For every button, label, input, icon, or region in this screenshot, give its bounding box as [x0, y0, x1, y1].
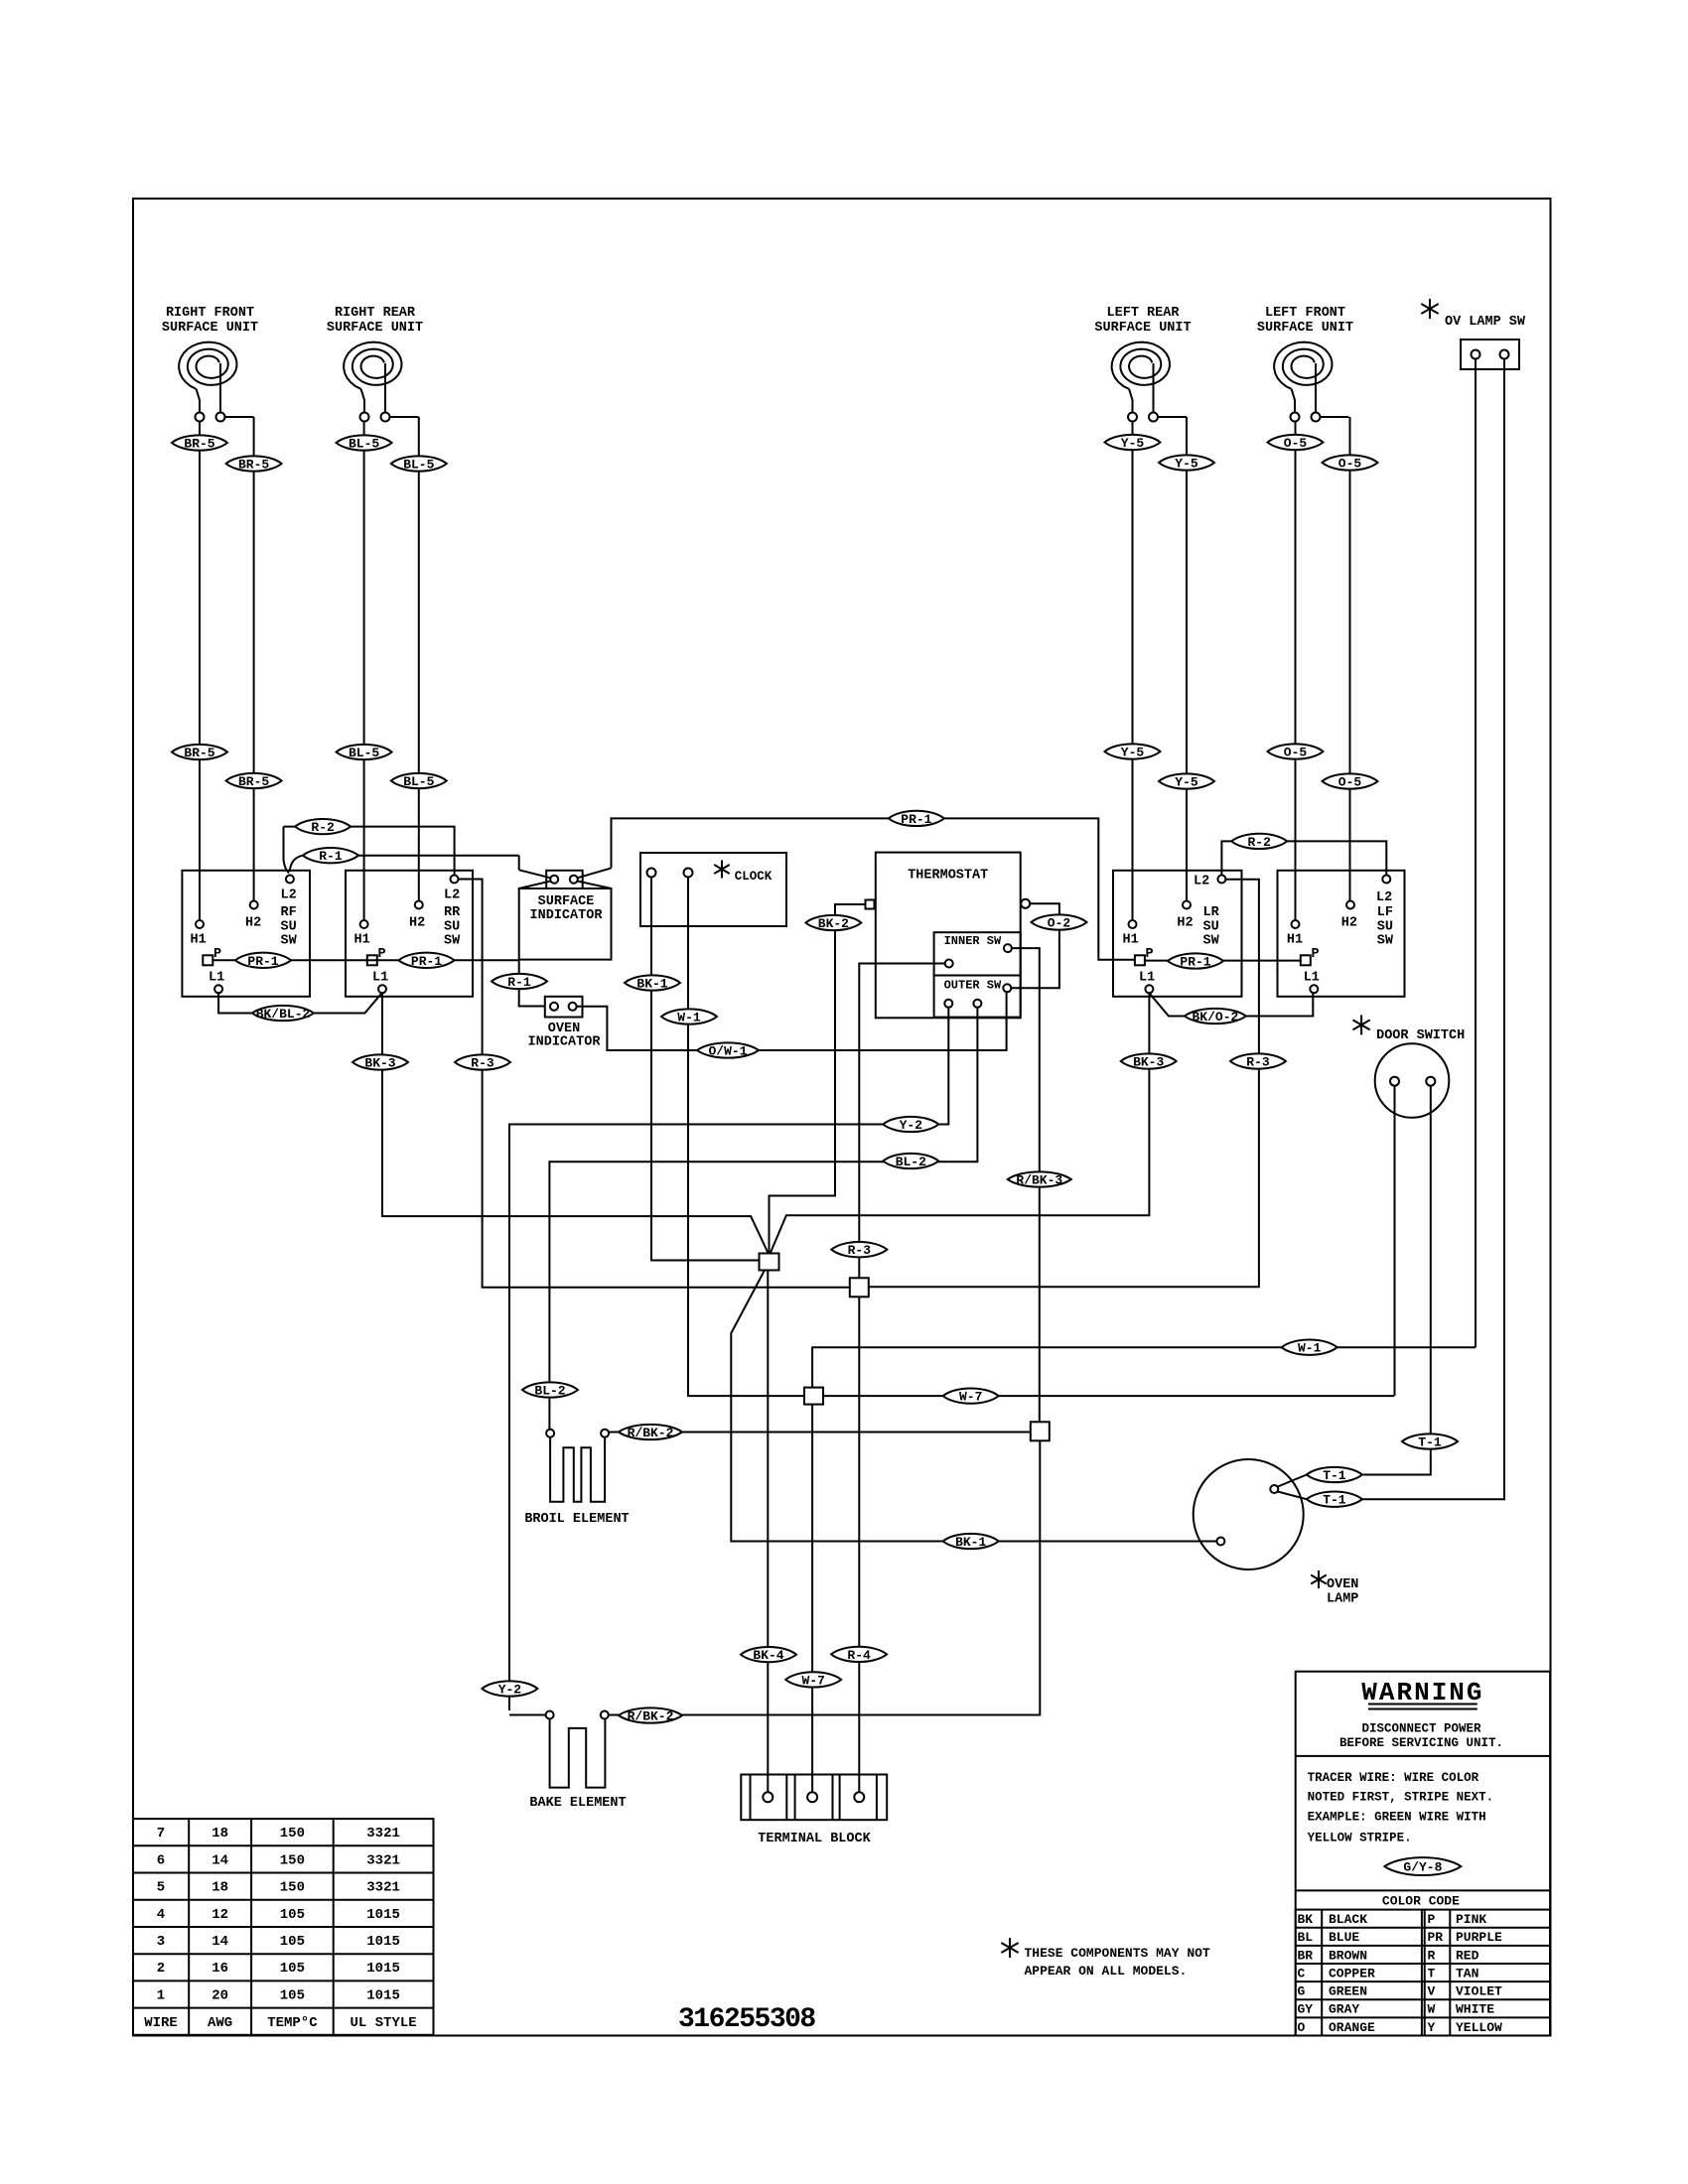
label W-7 (2) [785, 1672, 841, 1687]
svg-text:1: 1 [157, 1987, 165, 2003]
svg-text:L1: L1 [372, 971, 388, 986]
svg-text:R-1: R-1 [507, 975, 531, 990]
svg-text:INDICATOR: INDICATOR [530, 908, 604, 923]
svg-text:OV LAMP SW: OV LAMP SW [1445, 315, 1526, 330]
svg-text:APPEAR ON ALL MODELS.: APPEAR ON ALL MODELS. [1025, 1964, 1188, 1979]
svg-text:2: 2 [157, 1961, 165, 1977]
surface unit RR [327, 306, 423, 422]
svg-text:L2: L2 [1376, 890, 1392, 905]
svg-text:SURFACE UNIT: SURFACE UNIT [327, 321, 423, 336]
svg-text:BR-5: BR-5 [238, 774, 269, 789]
svg-text:RIGHT REAR: RIGHT REAR [335, 306, 416, 321]
svg-text:BL-5: BL-5 [403, 774, 434, 789]
svg-text:1015: 1015 [366, 1907, 400, 1923]
svg-text:20: 20 [211, 1987, 228, 2003]
svg-text:UL STYLE: UL STYLE [350, 2015, 416, 2031]
svg-text:VIOLET: VIOLET [1456, 1984, 1502, 1999]
outer switch box [934, 976, 1021, 1018]
svg-text:H1: H1 [1123, 933, 1139, 948]
svg-text:BAKE ELEMENT: BAKE ELEMENT [529, 1796, 626, 1811]
wire O-5 LF H2 riser [1349, 417, 1351, 902]
svg-text:AWG: AWG [208, 2015, 232, 2031]
svg-text:BK/O-2: BK/O-2 [1192, 1010, 1238, 1024]
svg-text:O-5: O-5 [1338, 775, 1362, 790]
svg-text:BEFORE SERVICING UNIT.: BEFORE SERVICING UNIT. [1339, 1736, 1503, 1750]
label BL-5 (4) [391, 773, 447, 788]
svg-text:H1: H1 [191, 933, 207, 948]
wire BL-5 RR H2 riser [418, 417, 420, 901]
thermostat box [876, 853, 1021, 1019]
svg-text:SU: SU [281, 920, 297, 935]
svg-text:WIRE: WIRE [144, 2015, 178, 2031]
OV lamp switch asterisk [1421, 299, 1438, 319]
svg-text:V: V [1428, 1984, 1436, 1999]
svg-text:G/Y-8: G/Y-8 [1403, 1860, 1442, 1875]
svg-text:THERMOSTAT: THERMOSTAT [908, 869, 988, 884]
label BR-5 (2) [226, 456, 282, 471]
surface indicator terminals [550, 876, 558, 884]
svg-text:PR-1: PR-1 [411, 954, 442, 969]
svg-text:LEFT REAR: LEFT REAR [1107, 306, 1181, 321]
svg-text:W-7: W-7 [801, 1673, 824, 1688]
wire R-2 left [284, 827, 455, 875]
wire BR-5 RF H2 riser [253, 417, 255, 901]
svg-text:CLOCK: CLOCK [735, 870, 773, 884]
oven lamp T-1 fan wires [1278, 1475, 1307, 1487]
wire R-3 right riser [869, 880, 1259, 1288]
svg-text:L2: L2 [281, 888, 297, 903]
svg-text:105: 105 [280, 1934, 305, 1950]
label PR-1 (1) [235, 953, 291, 968]
svg-text:R/BK-2: R/BK-2 [628, 1426, 674, 1440]
svg-text:3321: 3321 [366, 1852, 400, 1868]
surface unit LR [1094, 306, 1191, 422]
svg-text:Y-2: Y-2 [498, 1683, 522, 1698]
label R-4 [831, 1647, 887, 1662]
svg-text:SW: SW [1203, 934, 1220, 949]
label BL-5 (2) [391, 456, 447, 471]
oven lamp [1194, 1459, 1304, 1570]
svg-text:COLOR CODE: COLOR CODE [1382, 1894, 1460, 1909]
label BK-3 (left) [352, 1054, 408, 1069]
svg-text:BR-5: BR-5 [238, 458, 269, 473]
svg-text:C: C [1298, 1966, 1306, 1980]
svg-text:L1: L1 [209, 971, 224, 986]
label R/BK-3 [1008, 1171, 1071, 1186]
svg-text:H1: H1 [354, 933, 370, 948]
label R-3 (mid) [831, 1242, 887, 1257]
wire BL-5 RR H1 riser [363, 422, 365, 920]
label BL-2 (2) [522, 1382, 578, 1397]
svg-text:INNER SW: INNER SW [944, 934, 1002, 948]
door switch asterisk [1352, 1015, 1369, 1034]
svg-text:BR-5: BR-5 [184, 437, 214, 452]
wire R-3 left riser [459, 880, 850, 1288]
wire Y-5 LR H1 riser [1132, 422, 1134, 921]
svg-text:7: 7 [157, 1826, 165, 1842]
svg-text:3321: 3321 [366, 1826, 400, 1842]
broil element [546, 1430, 554, 1437]
label O-5 (4) [1323, 773, 1378, 788]
svg-text:Y-5: Y-5 [1175, 775, 1198, 790]
label BR-5 (4) [226, 773, 282, 788]
wire R-3 inner switch left arm [859, 964, 944, 1280]
svg-text:SURFACE UNIT: SURFACE UNIT [1094, 321, 1191, 336]
svg-text:BK-1: BK-1 [955, 1535, 986, 1550]
svg-text:GREEN: GREEN [1329, 1984, 1367, 1999]
svg-text:105: 105 [280, 1907, 305, 1923]
label Y-5 (1) [1105, 435, 1161, 450]
inner switch terminals [1004, 944, 1012, 952]
svg-text:Y-2: Y-2 [900, 1118, 923, 1133]
svg-text:BK-3: BK-3 [364, 1056, 395, 1071]
label PR-1 (3) [889, 811, 944, 826]
label R-2 (left) [295, 819, 351, 834]
svg-text:150: 150 [280, 1852, 305, 1868]
switch box LF SU SW [1278, 871, 1405, 997]
svg-text:O-5: O-5 [1284, 436, 1308, 451]
label Y-5 (4) [1159, 773, 1214, 788]
wire R-1 top [290, 856, 303, 872]
svg-text:T-1: T-1 [1323, 1493, 1346, 1508]
svg-text:L2: L2 [444, 888, 460, 903]
label O-5 (2) [1323, 455, 1378, 470]
svg-text:18: 18 [211, 1826, 228, 1842]
svg-text:SURFACE UNIT: SURFACE UNIT [1257, 321, 1353, 336]
svg-text:P: P [1428, 1912, 1436, 1927]
wire PR-1 left run [212, 959, 518, 961]
svg-text:RR: RR [444, 905, 461, 920]
oven indicator box [545, 997, 583, 1018]
svg-text:Y-5: Y-5 [1175, 457, 1198, 472]
clock asterisk [714, 861, 730, 879]
svg-text:PR-1: PR-1 [1180, 955, 1210, 970]
svg-text:W-1: W-1 [1298, 1341, 1322, 1356]
wire PR-1 box3 to box4 [1145, 960, 1301, 962]
svg-text:L2: L2 [1194, 875, 1209, 889]
svg-text:R-3: R-3 [1246, 1055, 1270, 1070]
label BK-1 (1) [625, 975, 680, 990]
svg-text:OUTER SW: OUTER SW [944, 979, 1002, 993]
label T-1 (1) [1402, 1433, 1458, 1448]
oven lamp bottom terminal [1216, 1538, 1224, 1546]
svg-text:R: R [1428, 1948, 1436, 1963]
wire R/BK-2 broil run [609, 1432, 1031, 1433]
svg-text:BL-2: BL-2 [534, 1384, 565, 1399]
wire R-4 to terminal block [858, 1297, 860, 1792]
svg-text:GRAY: GRAY [1329, 2002, 1359, 2017]
svg-text:INDICATOR: INDICATOR [528, 1035, 602, 1050]
label R-3 (left) [455, 1054, 510, 1069]
label BK-3 (right) [1121, 1053, 1177, 1068]
svg-text:TRACER WIRE: WIRE COLOR: TRACER WIRE: WIRE COLOR [1308, 1771, 1479, 1785]
svg-text:6: 6 [157, 1852, 165, 1868]
svg-text:LF: LF [1377, 905, 1393, 920]
door switch [1375, 1043, 1450, 1118]
wire gauge table [133, 1819, 434, 2035]
svg-text:LEFT FRONT: LEFT FRONT [1265, 306, 1345, 321]
label W-1 (1) [661, 1009, 717, 1024]
svg-text:O-5: O-5 [1284, 746, 1308, 760]
svg-text:T-1: T-1 [1323, 1468, 1346, 1483]
wire door switch left riser [1394, 1086, 1396, 1396]
surface indicator terminal box [546, 871, 583, 888]
svg-text:PURPLE: PURPLE [1456, 1930, 1502, 1945]
clock terminals [647, 869, 656, 878]
surface indicator lead-in diagonals [518, 856, 520, 871]
color code table [1296, 1910, 1550, 2036]
svg-text:WHITE: WHITE [1456, 2002, 1494, 2017]
wire BK/O-2 box3 L1 to box4 L1 [1149, 993, 1313, 1016]
svg-text:R-2: R-2 [311, 820, 335, 835]
wire BK-1 diagonal to oven lamp run [731, 1271, 1216, 1542]
svg-text:YELLOW STRIPE.: YELLOW STRIPE. [1308, 1831, 1412, 1844]
label Y-5 (2) [1159, 455, 1214, 470]
svg-text:BROWN: BROWN [1329, 1948, 1367, 1963]
label BR-5 (1) [172, 435, 227, 450]
svg-text:BLACK: BLACK [1329, 1912, 1367, 1927]
wire R/BK-2 bake run [609, 1440, 1040, 1714]
svg-text:5: 5 [157, 1880, 165, 1896]
wire BK-3 left riser [382, 994, 768, 1253]
svg-text:BK-4: BK-4 [753, 1648, 783, 1663]
svg-text:BK: BK [1298, 1912, 1314, 1927]
wire O/W-1 oven indicator to outer switch [577, 993, 1007, 1051]
oven lamp label [1311, 1570, 1327, 1588]
svg-text:PINK: PINK [1456, 1912, 1486, 1927]
svg-text:14: 14 [211, 1934, 228, 1950]
label T-1 (2) [1307, 1467, 1362, 1482]
label R-2 (right) [1231, 834, 1287, 849]
svg-text:TAN: TAN [1456, 1966, 1478, 1980]
svg-text:H2: H2 [409, 916, 425, 931]
svg-text:O-5: O-5 [1338, 457, 1362, 472]
svg-text:105: 105 [280, 1961, 305, 1977]
svg-text:LAMP: LAMP [1327, 1592, 1358, 1607]
wire W-1 from OV lamp SW left terminal [1475, 359, 1477, 1348]
svg-text:R-1: R-1 [319, 849, 343, 864]
label O-2 [1032, 914, 1087, 929]
svg-text:1015: 1015 [366, 1987, 400, 2003]
label W-1 (2) [1282, 1340, 1337, 1355]
wire BK/BL-2 box1 L1 to box2 L1 [218, 993, 382, 1014]
label R-3 (right) [1230, 1053, 1286, 1068]
switch box RR SU SW [346, 871, 473, 997]
svg-text:O-2: O-2 [1048, 916, 1071, 931]
svg-text:RF: RF [281, 905, 297, 920]
switch box RF SU SW [182, 871, 310, 997]
svg-text:P: P [1312, 947, 1320, 962]
svg-text:105: 105 [280, 1987, 305, 2003]
svg-text:L1: L1 [1304, 971, 1320, 986]
junction node R-3 [850, 1278, 869, 1297]
svg-text:BK-2: BK-2 [818, 916, 849, 931]
svg-text:Y: Y [1428, 2020, 1436, 2035]
svg-text:3321: 3321 [366, 1880, 400, 1896]
wire BK-4 to terminal block [767, 1271, 769, 1793]
wire BK-3 right riser [771, 993, 1149, 1252]
wire R-1 vertical to oven indicator [519, 960, 545, 1007]
svg-text:TEMP°C: TEMP°C [267, 2015, 318, 2031]
svg-text:18: 18 [211, 1880, 228, 1896]
outer switch terminals [1003, 984, 1011, 992]
svg-text:GY: GY [1298, 2002, 1314, 2017]
svg-text:O/W-1: O/W-1 [708, 1044, 747, 1059]
junction node W-7 [804, 1388, 823, 1405]
svg-text:R/BK-3: R/BK-3 [1016, 1173, 1062, 1188]
svg-text:T: T [1428, 1966, 1436, 1980]
label BL-2 (1) [883, 1154, 938, 1168]
wire door switch right riser (T-1) [1362, 1086, 1431, 1475]
svg-text:T-1: T-1 [1418, 1435, 1442, 1450]
wire Y-5 LR H2 riser [1186, 417, 1188, 902]
label O-5 (3) [1268, 744, 1324, 758]
svg-text:G: G [1298, 1984, 1306, 1999]
label BK-4 [741, 1647, 796, 1662]
label W-7 (1) [943, 1388, 999, 1403]
thermostat left terminal [866, 900, 875, 909]
label O-5 (1) [1268, 435, 1324, 450]
label BK/BL-2 [252, 1006, 314, 1021]
wire T-1 from OV lamp SW right terminal [1362, 359, 1504, 1500]
svg-text:R-3: R-3 [848, 1243, 872, 1258]
wire R/BK-3 inner switch right arm [1012, 948, 1040, 1423]
svg-text:3: 3 [157, 1934, 165, 1950]
svg-text:14: 14 [211, 1852, 228, 1868]
wire BK-1 clock to junction [651, 878, 760, 1261]
svg-text:Y-5: Y-5 [1121, 746, 1145, 760]
svg-text:R-4: R-4 [847, 1648, 871, 1663]
svg-text:R-2: R-2 [1247, 835, 1271, 850]
svg-text:PR: PR [1428, 1930, 1444, 1945]
svg-text:NOTED FIRST, STRIPE NEXT.: NOTED FIRST, STRIPE NEXT. [1308, 1790, 1494, 1804]
wire Y-2 outer switch arm 1 [509, 1008, 948, 1710]
svg-text:OVEN: OVEN [1327, 1577, 1358, 1592]
svg-text:316255308: 316255308 [678, 2004, 815, 2035]
wire W-1 clock riser [688, 878, 804, 1397]
wire W-7 to terminal block [811, 1405, 813, 1793]
svg-text:RED: RED [1456, 1948, 1479, 1963]
svg-text:16: 16 [211, 1961, 228, 1977]
svg-text:150: 150 [280, 1880, 305, 1896]
svg-text:150: 150 [280, 1826, 305, 1842]
wire O-2 thermostat to outer switch [1011, 903, 1059, 988]
wire O-5 LF H1 riser [1295, 422, 1297, 921]
footnote asterisk [1001, 1938, 1018, 1958]
bake element [509, 1714, 545, 1716]
junction node R/BK-2 [1031, 1422, 1050, 1440]
surface unit RF [162, 306, 258, 422]
wire R-2 right (box3 L2 to box4 L2) [1221, 841, 1386, 875]
svg-text:BK-1: BK-1 [636, 977, 667, 992]
svg-text:LR: LR [1203, 905, 1220, 920]
svg-text:BL-5: BL-5 [349, 746, 379, 760]
svg-text:BR-5: BR-5 [184, 746, 214, 760]
label G/Y-8 [1384, 1857, 1461, 1875]
oven lamp top terminal [1270, 1485, 1278, 1493]
svg-text:H2: H2 [1341, 916, 1357, 931]
svg-text:1015: 1015 [366, 1934, 400, 1950]
svg-text:W: W [1428, 2002, 1436, 2017]
svg-text:12: 12 [211, 1907, 228, 1923]
label O/W-1 [697, 1042, 759, 1057]
terminal block [741, 1775, 887, 1821]
svg-text:DOOR SWITCH: DOOR SWITCH [1376, 1028, 1465, 1043]
svg-text:W-1: W-1 [677, 1011, 701, 1025]
label BK/O-2 [1185, 1009, 1246, 1024]
label R/BK-2 (2) [619, 1707, 682, 1722]
thermostat right terminal [1021, 899, 1030, 908]
label BK-1 (2) [943, 1534, 999, 1549]
inner switch box [934, 932, 1021, 975]
surface unit LF [1257, 306, 1353, 422]
label BL-5 (1) [337, 435, 392, 450]
svg-text:BLUE: BLUE [1329, 1930, 1359, 1945]
svg-text:PR-1: PR-1 [901, 812, 931, 827]
wire BR-5 RF H1 riser [199, 422, 201, 920]
svg-text:DISCONNECT POWER: DISCONNECT POWER [1361, 1722, 1481, 1736]
label Y-5 (3) [1105, 744, 1161, 758]
svg-text:BROIL ELEMENT: BROIL ELEMENT [524, 1512, 629, 1527]
svg-text:4: 4 [157, 1907, 165, 1923]
svg-text:BR: BR [1298, 1948, 1314, 1963]
label PR-1 (2) [399, 953, 455, 968]
svg-text:SURFACE: SURFACE [538, 894, 595, 909]
label BL-5 (3) [337, 745, 392, 759]
svg-text:RIGHT FRONT: RIGHT FRONT [166, 306, 254, 321]
surface indicator box [519, 888, 612, 960]
svg-text:YELLOW: YELLOW [1456, 2020, 1502, 2035]
svg-text:H2: H2 [245, 916, 261, 931]
svg-text:BL: BL [1298, 1930, 1314, 1945]
border frame [133, 199, 1551, 2036]
svg-text:SU: SU [1203, 920, 1219, 935]
label R/BK-2 (1) [619, 1425, 682, 1439]
svg-text:SURFACE UNIT: SURFACE UNIT [162, 321, 258, 336]
label BK-2 [805, 915, 861, 930]
svg-text:SW: SW [444, 934, 461, 949]
junction node BK [760, 1254, 779, 1271]
label PR-1 (4) [1168, 953, 1223, 968]
label Y-2 (2) [482, 1681, 537, 1696]
wire W-7 horizontal [823, 1395, 1394, 1397]
wire BL-2 outer switch arm 2 [549, 1008, 977, 1429]
svg-text:R-3: R-3 [471, 1056, 494, 1071]
OV lamp switch box [1461, 340, 1519, 369]
svg-text:THESE COMPONENTS MAY NOT: THESE COMPONENTS MAY NOT [1025, 1946, 1210, 1961]
wire PR-1 long run over clock [612, 818, 1135, 959]
svg-text:BK-3: BK-3 [1133, 1055, 1164, 1070]
wire W-1 door switch run [812, 1347, 1476, 1388]
svg-text:TERMINAL BLOCK: TERMINAL BLOCK [758, 1832, 871, 1846]
svg-text:R/BK-2: R/BK-2 [628, 1709, 674, 1724]
svg-text:PR-1: PR-1 [247, 954, 278, 969]
svg-text:H1: H1 [1287, 933, 1303, 948]
clock box [640, 853, 786, 926]
oven indicator terminals [550, 1003, 558, 1011]
svg-text:W-7: W-7 [959, 1390, 982, 1405]
OV lamp switch terminals [1472, 350, 1480, 359]
svg-text:SU: SU [444, 920, 460, 935]
label T-1 (3) [1307, 1492, 1362, 1507]
label Y-2 (1) [883, 1117, 938, 1132]
svg-text:SU: SU [1377, 920, 1393, 935]
svg-text:BK/BL-2: BK/BL-2 [256, 1007, 311, 1022]
label R-1 (2) [492, 974, 547, 989]
svg-text:SW: SW [281, 934, 298, 949]
svg-text:BL-2: BL-2 [896, 1155, 926, 1169]
wire BK-2 thermostat to junction [770, 904, 866, 1254]
